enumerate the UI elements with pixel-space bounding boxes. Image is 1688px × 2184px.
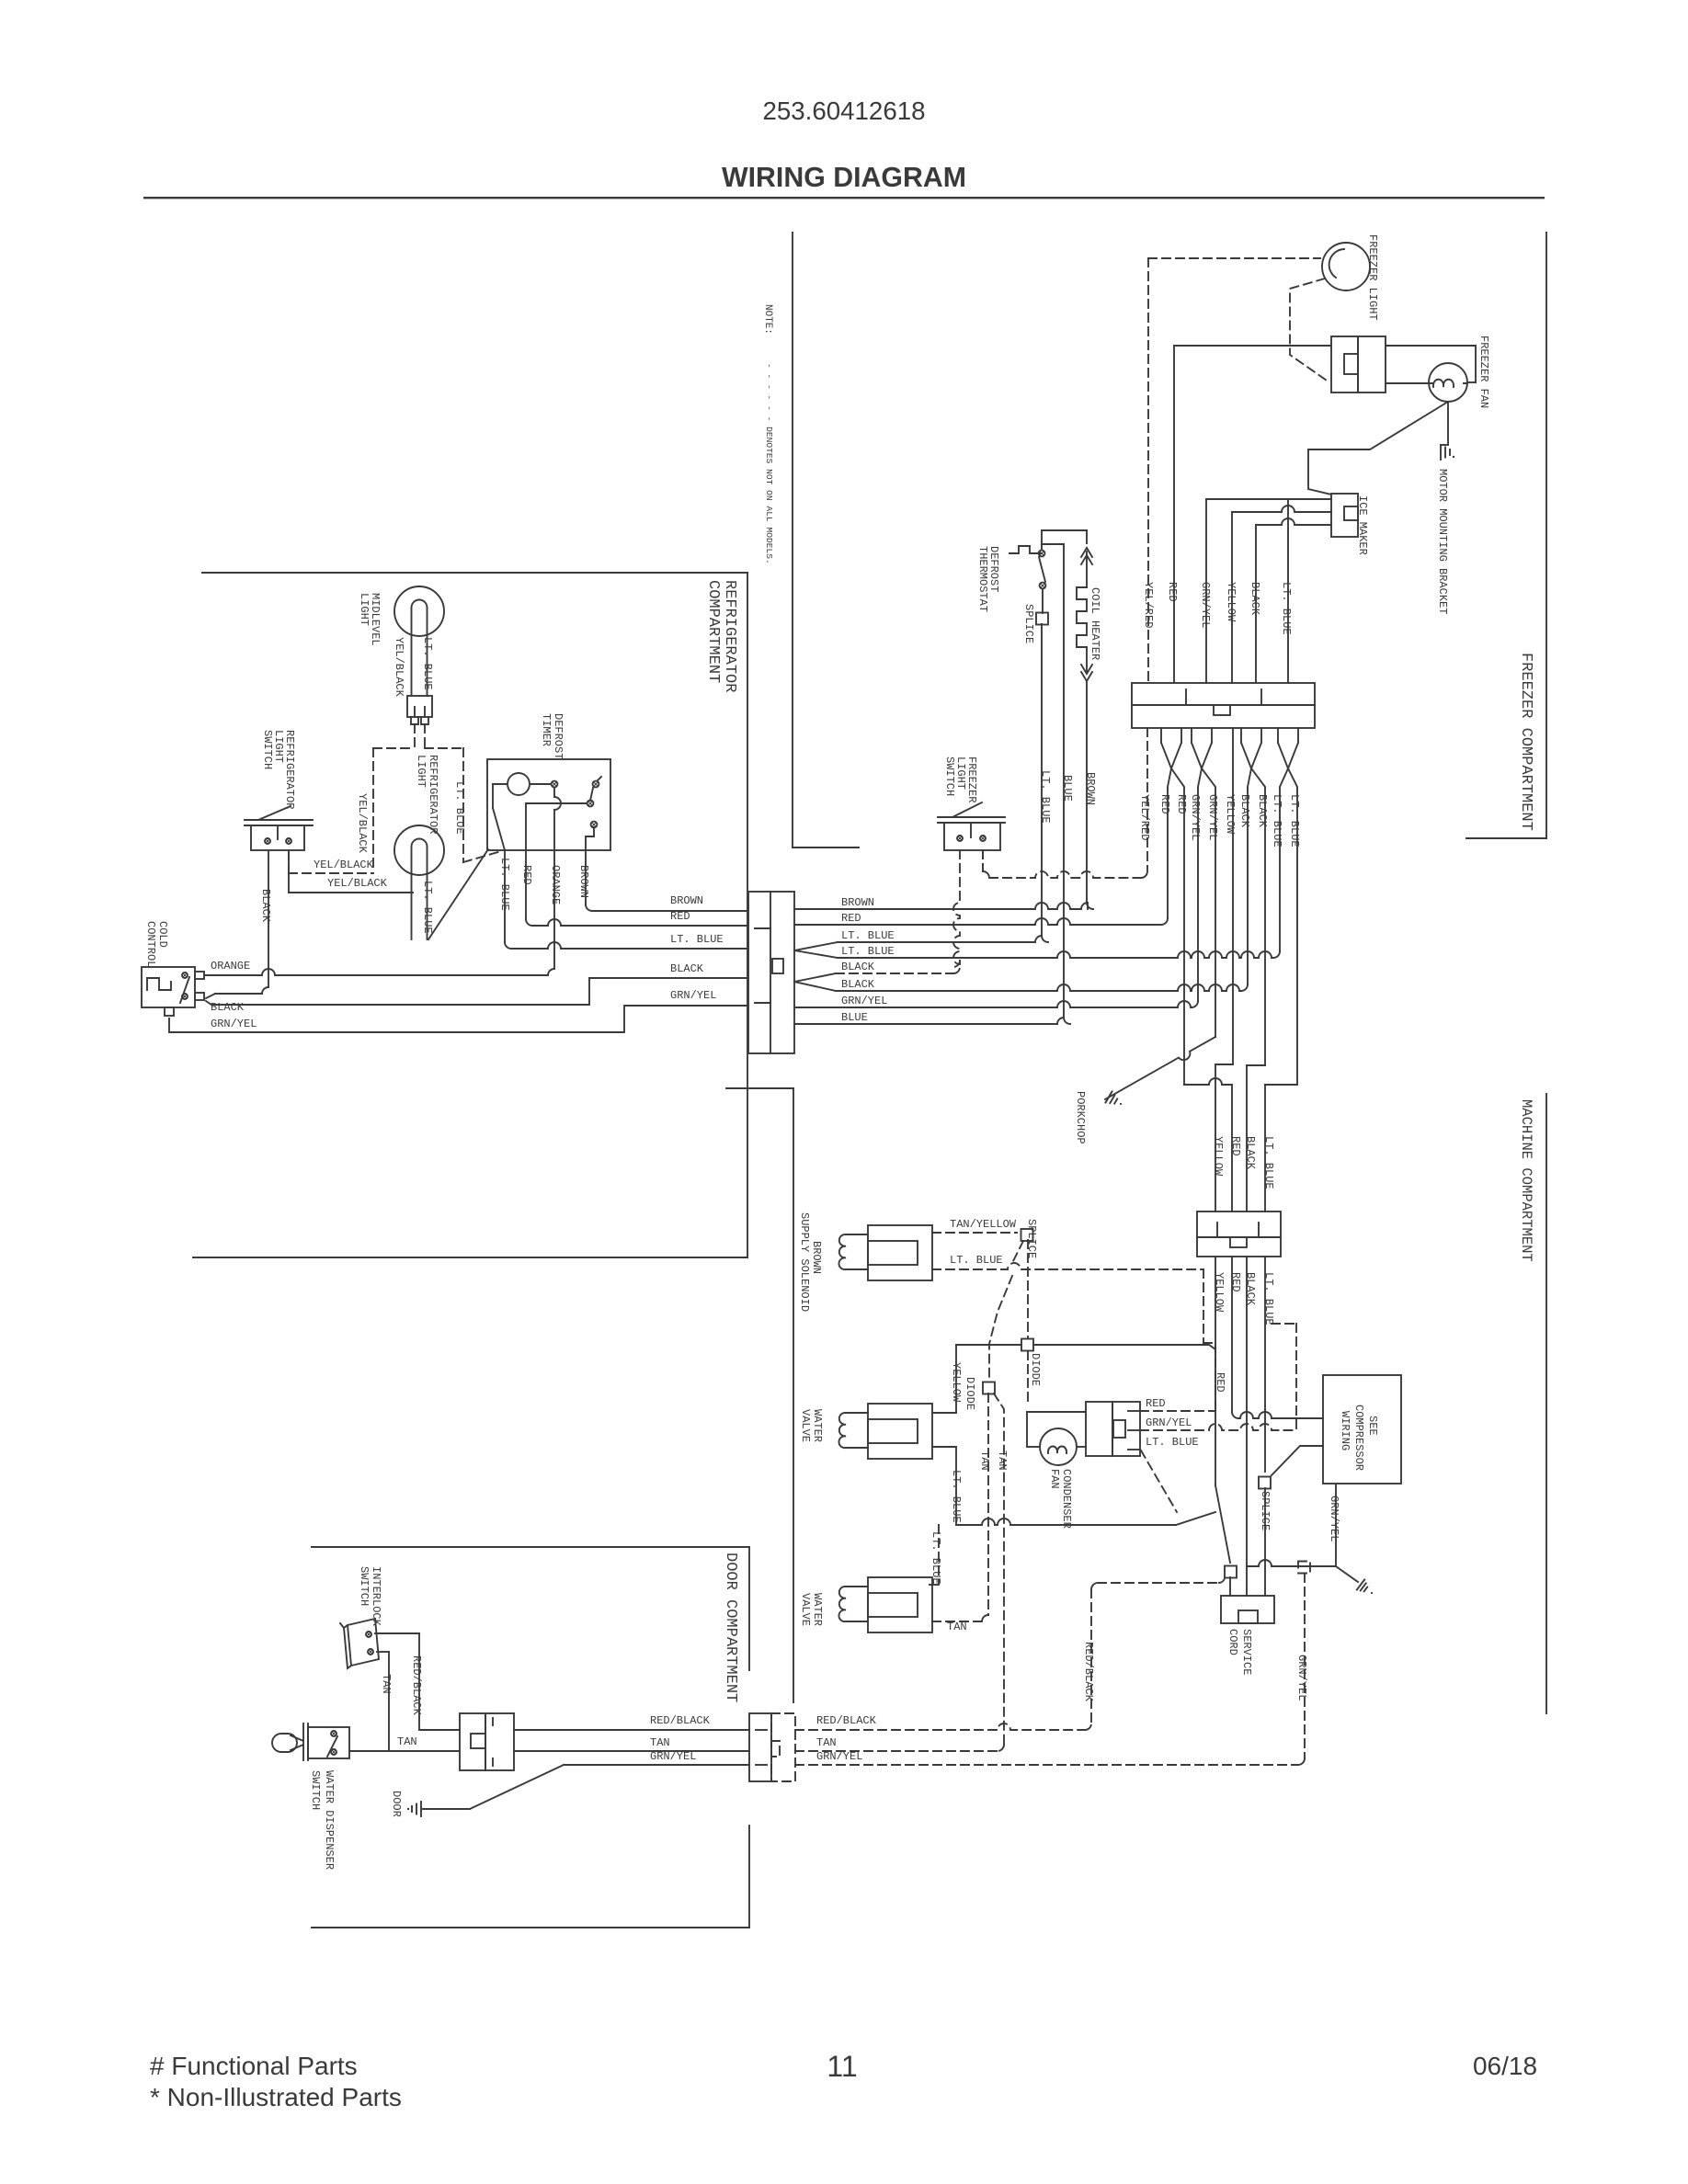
- svg-text:TAN: TAN: [397, 1735, 417, 1748]
- svg-text:LT. BLUE: LT. BLUE: [1146, 1436, 1199, 1449]
- svg-text:TAN: TAN: [380, 1674, 393, 1694]
- svg-text:WATER DISPENSER: WATER DISPENSER: [323, 1770, 336, 1870]
- svg-text:TAN: TAN: [816, 1736, 837, 1749]
- svg-text:RED/BLACK: RED/BLACK: [410, 1655, 423, 1716]
- svg-text:BROWN: BROWN: [577, 865, 590, 898]
- svg-text:GRN/YEL: GRN/YEL: [650, 1750, 696, 1763]
- svg-text:SWITCH: SWITCH: [309, 1770, 322, 1810]
- svg-text:LT. BLUE: LT. BLUE: [1271, 794, 1283, 847]
- svg-text:DIODE: DIODE: [964, 1377, 976, 1410]
- svg-text:RED: RED: [1158, 794, 1171, 814]
- svg-text:TAN: TAN: [947, 1621, 967, 1633]
- svg-text:RED/BLACK: RED/BLACK: [1082, 1642, 1095, 1702]
- svg-text:BROWN: BROWN: [670, 894, 703, 907]
- svg-text:MIDLEVEL: MIDLEVEL: [369, 593, 382, 646]
- svg-text:LT. BLUE: LT. BLUE: [1280, 582, 1293, 635]
- svg-text:INTERLOCK: INTERLOCK: [370, 1566, 382, 1627]
- svg-text:ORANGE: ORANGE: [211, 960, 250, 973]
- svg-text:FAN: FAN: [1048, 1469, 1061, 1489]
- svg-text:BLUE: BLUE: [841, 1011, 868, 1024]
- svg-text:LT. BLUE: LT. BLUE: [841, 929, 895, 942]
- svg-text:NOTE:: NOTE:: [762, 304, 773, 335]
- svg-text:WIRING DIAGRAM: WIRING DIAGRAM: [722, 163, 966, 193]
- svg-text:CONTROL: CONTROL: [144, 921, 157, 967]
- svg-text:RED: RED: [1166, 582, 1179, 602]
- svg-text:CONDENSER: CONDENSER: [1060, 1469, 1073, 1529]
- svg-text:SWITCH: SWITCH: [943, 756, 956, 796]
- svg-text:COMPARTMENT: COMPARTMENT: [704, 580, 722, 683]
- svg-text:BLACK: BLACK: [1238, 794, 1251, 828]
- svg-text:RED: RED: [670, 910, 690, 923]
- svg-text:DOOR COMPARTMENT: DOOR COMPARTMENT: [722, 1553, 739, 1702]
- svg-text:COMPRESSOR: COMPRESSOR: [1352, 1405, 1365, 1471]
- svg-text:COIL HEATER: COIL HEATER: [1089, 587, 1101, 660]
- svg-text:- - - - - - DENOTES NOT ON AL: - - - - - - DENOTES NOT ON ALL MODELS.: [764, 363, 774, 564]
- svg-text:LIGHT: LIGHT: [954, 756, 967, 790]
- svg-text:WATER: WATER: [811, 1409, 824, 1442]
- svg-text:VALVE: VALVE: [799, 1593, 812, 1626]
- svg-text:SEE: SEE: [1366, 1416, 1379, 1436]
- svg-text:253.60412618: 253.60412618: [762, 97, 925, 125]
- svg-text:GRN/YEL: GRN/YEL: [1189, 794, 1202, 840]
- svg-text:SERVICE: SERVICE: [1240, 1629, 1253, 1675]
- svg-text:MACHINE COMPARTMENT: MACHINE COMPARTMENT: [1518, 1099, 1534, 1262]
- svg-text:DOOR: DOOR: [390, 1791, 403, 1817]
- svg-text:YEL/BLACK: YEL/BLACK: [314, 859, 374, 871]
- svg-text:BLACK: BLACK: [841, 961, 875, 973]
- svg-text:MOTOR MOUNTING BRACKET: MOTOR MOUNTING BRACKET: [1436, 469, 1449, 614]
- svg-text:GRN/YEL: GRN/YEL: [1206, 794, 1219, 840]
- svg-text:LT. BLUE: LT. BLUE: [930, 1531, 942, 1585]
- svg-text:LT. BLUE: LT. BLUE: [1288, 794, 1301, 847]
- svg-text:ORANGE: ORANGE: [549, 865, 562, 904]
- svg-text:VALVE: VALVE: [799, 1409, 812, 1442]
- svg-text:DEFROST: DEFROST: [552, 713, 565, 759]
- svg-text:BLACK: BLACK: [259, 889, 272, 923]
- svg-text:LIGHT: LIGHT: [358, 593, 371, 626]
- svg-text:FREEZER COMPARTMENT: FREEZER COMPARTMENT: [1517, 653, 1534, 831]
- svg-text:GRN/YEL: GRN/YEL: [1295, 1655, 1308, 1701]
- svg-text:RED: RED: [520, 865, 533, 885]
- svg-text:SPLICE: SPLICE: [1022, 604, 1035, 643]
- svg-text:DIODE: DIODE: [1029, 1353, 1042, 1386]
- svg-text:GRN/YEL: GRN/YEL: [670, 989, 716, 1002]
- svg-text:YEL/BLACK: YEL/BLACK: [356, 793, 369, 854]
- svg-text:SWITCH: SWITCH: [358, 1566, 371, 1606]
- svg-text:GRN/YEL: GRN/YEL: [841, 995, 887, 1007]
- svg-text:LT. BLUE: LT. BLUE: [950, 1254, 1003, 1267]
- svg-text:RED/BLACK: RED/BLACK: [816, 1714, 877, 1727]
- svg-text:REFRIGERATOR: REFRIGERATOR: [721, 580, 738, 692]
- svg-text:* Non-Illustrated Parts: * Non-Illustrated Parts: [150, 2083, 402, 2111]
- svg-text:BROWN: BROWN: [810, 1241, 823, 1274]
- svg-text:DEFROST: DEFROST: [987, 546, 1000, 592]
- svg-text:YEL/BLACK: YEL/BLACK: [393, 637, 405, 698]
- svg-text:RED/BLACK: RED/BLACK: [650, 1714, 711, 1727]
- svg-text:FREEZER: FREEZER: [965, 756, 978, 802]
- svg-text:YELLOW: YELLOW: [1224, 794, 1237, 835]
- svg-text:TAN: TAN: [996, 1450, 1009, 1471]
- svg-text:GRN/YEL: GRN/YEL: [1199, 582, 1212, 628]
- svg-text:COLD: COLD: [156, 921, 169, 948]
- svg-text:LT. BLUE: LT. BLUE: [841, 945, 895, 958]
- svg-text:GRN/YEL: GRN/YEL: [816, 1750, 862, 1763]
- svg-text:# Functional Parts: # Functional Parts: [150, 2052, 358, 2080]
- svg-text:WATER: WATER: [811, 1593, 824, 1626]
- svg-text:PORKCHOP: PORKCHOP: [1074, 1091, 1087, 1144]
- svg-text:YELLOW: YELLOW: [1225, 582, 1237, 622]
- svg-text:BLACK: BLACK: [1249, 582, 1261, 616]
- svg-text:CORD: CORD: [1226, 1629, 1239, 1655]
- svg-text:06/18: 06/18: [1473, 2052, 1537, 2080]
- svg-text:GRN/YEL: GRN/YEL: [1328, 1496, 1340, 1541]
- svg-text:YEL/RED: YEL/RED: [1138, 794, 1151, 840]
- svg-text:TAN/YELLOW: TAN/YELLOW: [950, 1218, 1017, 1231]
- svg-text:RED: RED: [841, 912, 861, 925]
- svg-text:LIGHT: LIGHT: [415, 755, 428, 788]
- svg-text:BLACK: BLACK: [1256, 794, 1269, 828]
- svg-text:11: 11: [827, 2050, 857, 2083]
- svg-text:RED: RED: [1146, 1397, 1166, 1410]
- svg-text:LT. BLUE: LT. BLUE: [670, 933, 724, 946]
- svg-text:SUPPLY SOLENOID: SUPPLY SOLENOID: [798, 1212, 811, 1312]
- svg-text:YEL/BLACK: YEL/BLACK: [327, 877, 388, 890]
- svg-text:WIRING: WIRING: [1339, 1411, 1352, 1450]
- svg-text:BLACK: BLACK: [670, 962, 704, 975]
- svg-text:YELLOW: YELLOW: [1212, 1136, 1225, 1177]
- svg-text:LIGHT: LIGHT: [272, 730, 285, 763]
- svg-text:TIMER: TIMER: [540, 713, 553, 746]
- svg-text:GRN/YEL: GRN/YEL: [211, 1018, 257, 1030]
- svg-text:RED: RED: [1175, 794, 1188, 814]
- svg-text:SPLICE: SPLICE: [1025, 1219, 1038, 1258]
- svg-text:TAN: TAN: [650, 1736, 670, 1749]
- svg-text:BLACK: BLACK: [211, 1001, 245, 1014]
- svg-text:BLACK: BLACK: [841, 978, 875, 991]
- svg-text:REFRIGERATOR: REFRIGERATOR: [283, 730, 296, 809]
- svg-text:BROWN: BROWN: [841, 896, 874, 909]
- svg-text:FREEZER FAN: FREEZER FAN: [1477, 336, 1490, 408]
- svg-text:GRN/YEL: GRN/YEL: [1146, 1416, 1192, 1429]
- svg-text:SWITCH: SWITCH: [261, 730, 274, 769]
- svg-text:REFRIGERATOR: REFRIGERATOR: [427, 755, 439, 834]
- svg-text:THERMOSTAT: THERMOSTAT: [976, 546, 989, 612]
